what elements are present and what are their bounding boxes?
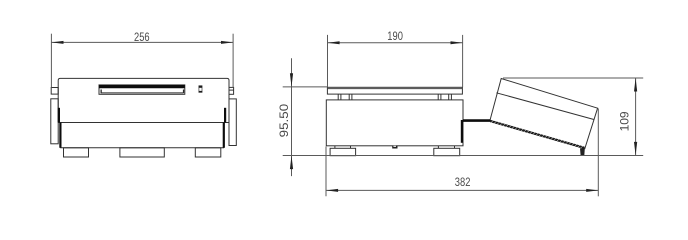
front view: left side panel [51,99,58,144]
front view: slot thick top band [99,85,185,88]
dim 256 left extension line [50,34,52,88]
front view: indicator dark bottom [199,91,203,93]
side view: right foot posts [437,146,439,149]
front view: right upper tab [229,87,234,94]
dim 256 right arrowhead [221,41,233,44]
dim 109 top extension line [503,77,643,79]
side view: body thick right edge band [461,120,463,143]
dim 190 left extension line [327,35,329,87]
dim 190 left arrowhead [328,41,340,44]
dim 95.50 top extension line [283,86,328,88]
dim 95.50 dimension line [291,58,293,176]
front view: foot 2 (center) [120,148,164,157]
front view: paper slot outer rectangle [99,85,185,94]
dim 109 top arrowhead (inside, pointing up) [634,78,637,92]
dim 95.50 top arrowhead (outside, pointing down) [290,73,293,87]
dim 382 right extension line [597,109,599,197]
side view: right foot base [434,148,460,155]
front view: thick right edge segment (upper body) [224,108,226,123]
side view: arm connecting body to display [463,119,491,122]
dim 382 dimension line [326,189,598,191]
front view: lower body bottom edge [60,147,224,149]
front view: lower body thick left edge [59,123,61,148]
svg-text:256: 256 [134,30,150,44]
front view: right side panel [229,99,236,146]
side view: platter support post lines [337,94,339,100]
svg-text:190: 190 [387,29,403,43]
side view: platter plate [327,87,462,94]
side view: display band line [496,93,594,120]
front view: slot right inner tick [183,90,184,94]
front view: lower body thick right edge [223,123,225,148]
front view: thick left edge segment (upper body) [58,108,60,123]
dim 190 right arrowhead [451,41,463,44]
side view: platter inner top line [327,88,462,90]
front view: foot 1 [64,148,89,157]
svg-text:109: 109 [617,111,631,131]
front view: slot left inner tick [101,90,102,94]
side view: left foot base [330,148,356,155]
front view: small indicator window [199,86,202,93]
front view: right tab mid line [229,89,234,91]
side view: display hatched bottom edge [490,121,584,148]
dim 190 dimension line [328,42,463,44]
dim 256 right extension line [232,34,234,88]
svg-text:95.50: 95.50 [277,104,291,138]
front view: paper slot inner bottom line [101,92,184,94]
side view: display tip foot [580,148,585,155]
dim 382 right arrowhead [586,189,598,192]
front view: foot 3 [195,148,221,157]
ground line (bottom extension for 95.50 and 109) [283,155,644,157]
svg-text:382: 382 [455,175,471,189]
dim 95.50 bottom arrowhead (outside, pointing up) [290,156,293,170]
dim 256 dimension line [51,41,233,43]
front view: upper body outline [58,78,229,122]
front view: left upper tab [51,88,58,95]
front view: division line between upper and lower body [58,122,229,124]
dim 109 bottom arrowhead (inside, pointing down) [634,142,637,156]
side view: hatch slashes on bottom edge [491,120,583,148]
dim 256 left arrowhead [51,41,63,44]
dim 109 dimension line [635,78,637,155]
dim 190 right extension line [462,35,464,87]
dim 382 left extension line [325,147,327,197]
side view: bottom center nub [392,146,397,149]
side view: main body box [326,100,463,146]
dim 382 left arrowhead [326,189,338,192]
side view: left foot posts [334,146,336,149]
front view: indicator dark top [199,86,203,88]
side view: tilted display console outline [490,79,598,149]
